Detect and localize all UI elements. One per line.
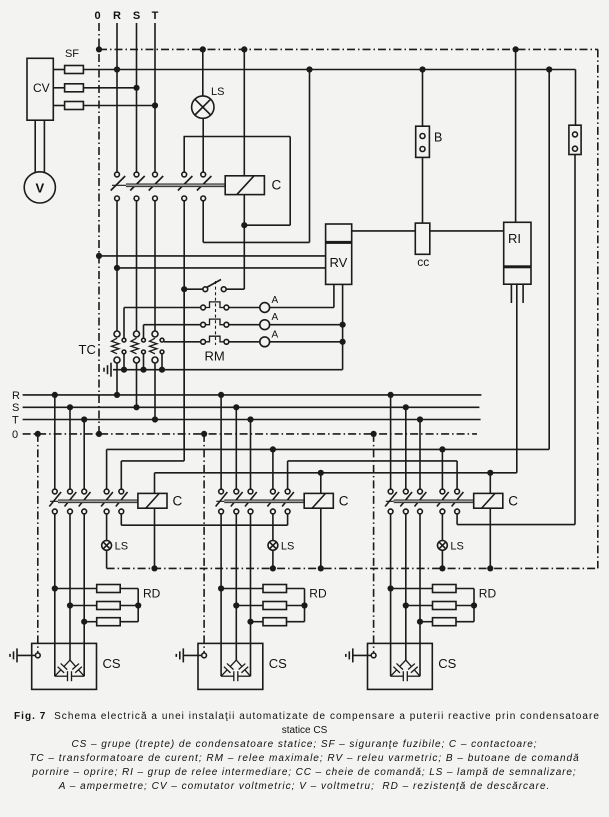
svg-text:LS: LS — [281, 541, 294, 553]
wire RI leg2 long — [516, 284, 518, 473]
fuse SF1 — [65, 66, 84, 74]
wire RMnode-line2 — [183, 289, 185, 461]
junction busS/branch1 — [67, 404, 73, 410]
wire CV-V right — [43, 120, 45, 172]
varmetric relay RV — [326, 224, 352, 284]
svg-text:CS: CS — [103, 656, 121, 671]
wire RD1.1 right — [120, 588, 138, 590]
svg-text:CS: CS — [438, 656, 456, 671]
command key CC — [415, 223, 430, 254]
capacitor CS1 right — [70, 660, 76, 666]
wire branch1 S to CS — [69, 514, 71, 660]
contactor C1 coil — [138, 493, 167, 508]
wire branch1 aux2 bottom — [120, 514, 122, 525]
wire branch1 coil top — [154, 473, 156, 494]
junction line3/branch2 — [318, 470, 324, 476]
wire branch2 T drop — [250, 420, 252, 490]
current transformer TC3 — [152, 331, 158, 337]
wire branch1 coil bottom — [154, 508, 156, 568]
contactor C2 contact S — [234, 489, 239, 494]
wire branch1 T drop — [83, 420, 85, 490]
wire RD1.1 left — [55, 588, 97, 590]
wire RD1 common — [137, 589, 139, 622]
wire B1-CC — [422, 157, 424, 223]
wire control line4a (stop) — [121, 524, 287, 526]
capacitor CS1 left — [64, 660, 70, 666]
junction RD3.1 — [388, 585, 394, 591]
wire TC1 sec top — [124, 308, 201, 339]
capacitor group CS1 — [32, 643, 97, 689]
wire branch2 S drop — [235, 407, 237, 489]
wire RMcoil2-A2 — [229, 324, 260, 326]
junction 0/RV — [96, 253, 102, 259]
push button B2 — [569, 125, 581, 154]
junction busR/branch2 — [218, 392, 224, 398]
wire branch1 R to CS — [54, 514, 56, 676]
svg-text:RD: RD — [143, 587, 161, 601]
junction neutral/LS2 — [270, 565, 276, 571]
wire branch1 T to CS — [83, 514, 85, 676]
wire RD2.3 left — [251, 621, 264, 623]
wire B2 drop — [574, 155, 576, 525]
wire RD1.3 left — [84, 621, 97, 623]
wire R-line1 riser — [548, 70, 550, 450]
wire S feeder mid — [136, 201, 138, 331]
junction RD1.3 — [81, 619, 87, 625]
capacitor CS2 bottom — [221, 671, 250, 681]
junction busR/branch1 — [52, 392, 58, 398]
ground CS2 — [176, 648, 183, 662]
wire RMcoil3-A3 — [229, 341, 260, 343]
junction TC2 common — [140, 367, 146, 373]
capacitor CS3 right — [406, 660, 412, 666]
wire branch3 aux2 bottom — [456, 514, 458, 525]
contactor C1 contact T — [82, 489, 87, 494]
junction T tap — [152, 102, 158, 108]
contactor C main contact R — [115, 172, 120, 177]
ammeter A1 — [260, 303, 270, 313]
junction RD2.3 — [247, 619, 253, 625]
wire loop bottom — [244, 224, 290, 226]
ground TC common — [104, 363, 111, 377]
contactor C1 aux contact 2 — [119, 489, 124, 494]
svg-text:LS: LS — [115, 541, 128, 553]
contactor C2 coil — [304, 493, 333, 508]
junction R/aux2 — [306, 66, 312, 72]
junction 0/RI — [513, 46, 519, 52]
wire branch2 aux2 riser — [287, 461, 289, 489]
wire ground-CS2 — [183, 654, 201, 656]
wire 0-LS — [202, 49, 204, 96]
wire aux1 top riser — [183, 137, 185, 173]
svg-text:B: B — [434, 131, 442, 145]
wire branch3 aux1-LS — [441, 514, 443, 541]
TC2 secondary terminals — [142, 338, 146, 354]
wire loop top — [184, 136, 291, 138]
wire TC common — [113, 369, 343, 371]
signal lamp LS3 — [438, 541, 448, 551]
wire R feeder mid — [116, 201, 118, 331]
junction RD2 common — [301, 602, 307, 608]
junction RD2.1 — [218, 585, 224, 591]
ammeter A3 — [260, 337, 270, 347]
wire RMcoil1-A1 — [229, 307, 260, 309]
wire supply T — [83, 105, 155, 107]
svg-text:LS: LS — [211, 86, 224, 98]
relay RM trip contact — [203, 280, 226, 292]
junction A3/RVleg2 — [340, 339, 346, 345]
junction RD3.2 — [403, 602, 409, 608]
wire T feeder vertical upper — [154, 23, 156, 172]
bus T — [23, 419, 481, 421]
fuse SF3 — [65, 102, 84, 110]
junction bus0/branch1 — [35, 431, 41, 437]
contactor C1 aux contact 1 — [104, 489, 109, 494]
wire branch3 coil bottom — [489, 508, 491, 568]
contactor C1 contact R — [52, 489, 57, 494]
wire CC-RI — [430, 230, 504, 232]
relay RM coil 2 — [201, 322, 206, 327]
wire branch2 LS bottom — [272, 550, 274, 568]
wire RD2.2 left — [236, 605, 263, 607]
relay RM coil 3 — [201, 339, 206, 344]
ground CS3 — [346, 648, 353, 662]
contactor C3 coil — [474, 493, 503, 508]
wire A1-RV — [270, 307, 334, 309]
wire R-B2 corner — [575, 70, 577, 126]
TC3 secondary terminals — [160, 338, 164, 354]
junction R tap — [114, 66, 120, 72]
contactor C aux contact 1 — [182, 172, 187, 177]
current transformer TC1 — [114, 331, 120, 337]
wire branch2 aux1 riser — [272, 449, 274, 489]
wire aux2-R horizontal — [203, 241, 309, 243]
junction A2/RVleg2 — [340, 322, 346, 328]
wire 0 neutral horizontal (dash-dot) — [107, 567, 598, 569]
wire R-aux2 riser — [309, 70, 311, 243]
intermediate relays RI — [504, 222, 531, 284]
wire CV-fuse T — [53, 105, 64, 107]
wire 0 feeder vertical (dash-dot) — [98, 23, 100, 434]
junction neutral/coil2 — [318, 565, 324, 571]
wire branch1 aux2 riser — [120, 461, 122, 489]
signal lamp LS2 — [268, 541, 278, 551]
wire branch1 aux1-LS — [106, 514, 108, 541]
wire RV-CC — [352, 230, 416, 232]
wire branch2 aux2 bottom — [287, 514, 289, 525]
wire RI leg3 — [522, 284, 524, 303]
svg-text:C: C — [508, 494, 518, 509]
svg-text:TC: TC — [79, 342, 96, 357]
junction busS/feeder — [133, 404, 139, 410]
wire TC2 sec top — [144, 325, 201, 339]
junction 0/LS — [200, 46, 206, 52]
junction coilC node — [241, 222, 247, 228]
capacitor group CS3 — [368, 643, 433, 689]
wire RI leg1 — [510, 284, 512, 303]
wire branch3 LS bottom — [441, 550, 443, 568]
resistor RD1.3 — [97, 618, 121, 626]
wire T feeder mid — [154, 201, 156, 331]
svg-text:A: A — [272, 329, 279, 340]
wire branch3 R to CS — [390, 514, 392, 676]
junction RD2.2 — [233, 602, 239, 608]
wire RD3.2 left — [406, 605, 433, 607]
ground CS1 — [10, 648, 17, 662]
wire control line4b (stop) — [457, 524, 575, 526]
junction bus0/branch3 — [371, 431, 377, 437]
wire aux1-RMcontact — [184, 288, 203, 290]
junction neutral/coil1 — [151, 565, 157, 571]
contactor C3 contact S — [403, 489, 408, 494]
svg-text:R: R — [12, 390, 20, 402]
contactor C1 linkage bar — [50, 500, 138, 502]
wire T feeder low — [154, 363, 156, 420]
wire RD2.3 right — [287, 621, 305, 623]
wire branch2 R drop — [220, 395, 222, 489]
wire R-RV input — [117, 267, 326, 269]
wire branch1 R drop — [54, 395, 56, 489]
wire ground-CS3 — [353, 654, 371, 656]
wire TC2 sec bottom — [143, 354, 145, 370]
wire RD3.2 right — [456, 605, 474, 607]
capacitor CS3 left — [400, 660, 406, 666]
wire A3-common — [270, 341, 343, 343]
junction 0/coilC — [241, 46, 247, 52]
capacitor CS3 bottom — [391, 671, 420, 681]
wire control line2b — [288, 460, 458, 462]
signal lamp LS1 — [102, 541, 112, 551]
terminal CS2 neutral — [202, 653, 207, 658]
junction line1/branch3 — [439, 446, 445, 452]
wire S feeder low — [136, 363, 138, 407]
wire aux2 drop — [202, 201, 204, 243]
junction TC3 common — [159, 367, 165, 373]
wire RV leg2 — [342, 284, 344, 369]
wire RD2 common — [304, 589, 306, 622]
wire supply S — [83, 87, 136, 89]
wire S feeder vertical upper — [136, 23, 138, 172]
resistor RD1.2 — [97, 602, 121, 610]
wire branch3 aux1 riser — [441, 449, 443, 489]
wire RMcontact-coilC — [226, 288, 244, 290]
bus S — [23, 406, 480, 408]
wire RD3.3 left — [420, 621, 433, 623]
terminal CS3 neutral — [371, 653, 376, 658]
junction S tap — [133, 85, 139, 91]
bus 0 (dash-dot) — [23, 433, 477, 435]
RM mechanical link (dashed) — [215, 281, 217, 345]
resistor RD3.2 — [433, 602, 457, 610]
wire control line1 — [107, 448, 550, 450]
junction neutral/coil3 — [487, 565, 493, 571]
resistor RD3.3 — [433, 618, 457, 626]
ammeter A2 — [260, 320, 270, 330]
wire A2-RV — [270, 324, 343, 326]
junction busT/feeder — [152, 416, 158, 422]
svg-text:LS: LS — [450, 541, 463, 553]
contactor C3 linkage bar — [386, 500, 474, 502]
capacitor CS1 bottom — [55, 671, 84, 681]
contactor C3 contact T — [418, 489, 423, 494]
svg-text:A: A — [272, 312, 279, 323]
junction RD1.2 — [67, 602, 73, 608]
wire RD2.1 left — [221, 588, 263, 590]
svg-text:CV: CV — [33, 81, 50, 95]
wire 0 net right vertical (dash-dot) — [597, 49, 599, 568]
junction R/RV — [114, 265, 120, 271]
wire branch3 aux2 riser — [456, 461, 458, 489]
wire ground-CS1 — [17, 654, 35, 656]
TC1 secondary terminals — [122, 338, 126, 354]
svg-text:0: 0 — [94, 10, 100, 22]
svg-text:S: S — [133, 10, 140, 22]
bus R — [23, 394, 482, 396]
junction R/B1 — [419, 66, 425, 72]
svg-text:cc: cc — [417, 255, 429, 269]
wire RD3.3 right — [456, 621, 474, 623]
wire CV-V left — [34, 120, 36, 172]
junction RD1.1 — [52, 585, 58, 591]
resistor RD1.1 — [97, 585, 121, 593]
junction aux1/RM — [181, 286, 187, 292]
resistor RD2.1 — [263, 585, 287, 593]
contactor C main contact S — [134, 172, 139, 177]
wire RD3 common — [473, 589, 475, 622]
current transformer TC2 — [134, 331, 140, 337]
svg-text:RV: RV — [330, 255, 348, 270]
wire TC3 sec top — [164, 341, 201, 343]
wire supply R — [83, 69, 575, 71]
wire R feeder low — [116, 363, 118, 395]
wire branch2 aux1-LS — [272, 514, 274, 541]
junction busR/branch3 — [388, 392, 394, 398]
wire TC3 sec bottom — [161, 354, 163, 370]
svg-text:SF: SF — [65, 48, 79, 60]
junction bus0/branch2 — [201, 431, 207, 437]
voltmeter switch CV — [27, 58, 53, 120]
junction TC1 common — [121, 367, 127, 373]
junction line3/branch3 — [487, 470, 493, 476]
contactor C coil — [225, 176, 264, 195]
capacitor CS2 right — [236, 660, 242, 666]
junction bus0/feeder — [96, 431, 102, 437]
contactor C linkage bar — [112, 184, 225, 186]
svg-text:C: C — [339, 494, 349, 509]
wire aux1-RM drop — [183, 201, 185, 450]
wire branch3 T to CS — [419, 514, 421, 676]
svg-text:V: V — [35, 181, 44, 196]
contactor C3 contact R — [388, 489, 393, 494]
capacitor CS2 left — [230, 660, 236, 666]
contactor C aux contact 2 — [201, 172, 206, 177]
wire RD1.2 right — [120, 605, 138, 607]
svg-text:S: S — [12, 402, 19, 414]
wire control line2a — [121, 460, 184, 462]
contactor C2 linkage bar — [216, 500, 304, 502]
wire branch1 LS bottom — [106, 550, 108, 568]
svg-text:RD: RD — [479, 587, 497, 601]
wire RD1.3 right — [120, 621, 138, 623]
wire branch3 coil top — [489, 473, 491, 494]
wire branch2 0 drop (dash-dot) — [203, 434, 205, 653]
wire 0-RI — [515, 49, 517, 222]
wire RD3.1 left — [391, 588, 433, 590]
wire branch3 S to CS — [405, 514, 407, 660]
wire RD2.1 right — [287, 588, 305, 590]
contactor C2 aux contact 1 — [271, 489, 276, 494]
wire branch2 S to CS — [235, 514, 237, 660]
wire loop right — [289, 137, 291, 226]
junction busT/branch1 — [81, 416, 87, 422]
wire branch3 R drop — [390, 395, 392, 489]
junction neutral/LS3 — [439, 565, 445, 571]
junction RD1 common — [135, 602, 141, 608]
wire RD1.2 left — [70, 605, 97, 607]
svg-text:T: T — [12, 414, 19, 426]
wire CV-fuse R — [53, 69, 64, 71]
wire 0 net horizontal (dash-dot) — [99, 48, 598, 50]
capacitor group CS2 — [198, 643, 263, 689]
wire branch2 coil top — [320, 473, 322, 494]
wire RD3.1 right — [456, 588, 474, 590]
wire coilC-RM — [243, 225, 245, 289]
junction R/riser — [546, 66, 552, 72]
push button B1 — [416, 126, 430, 157]
wire coilC bottom — [243, 195, 245, 226]
contactor C2 contact R — [219, 489, 224, 494]
junction 0/feeder — [96, 46, 102, 52]
wire branch1 0 drop (dash-dot) — [37, 434, 39, 653]
svg-text:RM: RM — [205, 349, 225, 364]
wire control line3 — [155, 472, 517, 474]
fuse SF2 — [65, 84, 84, 92]
junction line1/branch2 — [270, 446, 276, 452]
resistor RD3.1 — [433, 585, 457, 593]
contactor C main contact T — [153, 172, 158, 177]
wire branch3 T drop — [419, 420, 421, 490]
svg-text:C: C — [272, 178, 282, 193]
contactor C3 aux contact 2 — [455, 489, 460, 494]
relay RM coil 1 — [201, 305, 206, 310]
contactor C2 aux contact 2 — [285, 489, 290, 494]
svg-text:C: C — [173, 494, 183, 509]
wire branch2 T to CS — [250, 514, 252, 676]
wire branch3 S drop — [405, 407, 407, 489]
wire branch3 0 drop (dash-dot) — [373, 434, 375, 653]
svg-text:RD: RD — [309, 587, 327, 601]
voltmeter V — [24, 172, 55, 203]
junction busT/branch2 — [247, 416, 253, 422]
wire branch1 aux1 riser — [106, 449, 108, 489]
wire RV leg1 — [333, 284, 335, 307]
resistor RD2.2 — [263, 602, 287, 610]
svg-text:0: 0 — [12, 429, 18, 441]
svg-text:CS: CS — [269, 656, 287, 671]
junction busS/branch3 — [403, 404, 409, 410]
junction busS/branch2 — [233, 404, 239, 410]
svg-text:T: T — [152, 10, 159, 22]
svg-text:RI: RI — [508, 231, 521, 246]
junction busT/branch3 — [417, 416, 423, 422]
junction RD3.3 — [417, 619, 423, 625]
svg-text:R: R — [113, 10, 121, 22]
wire branch2 coil bottom — [320, 508, 322, 568]
resistor RD2.3 — [263, 618, 287, 626]
contactor C3 aux contact 1 — [440, 489, 445, 494]
wire branch1 S drop — [69, 407, 71, 489]
wire LS-aux2 — [202, 118, 204, 172]
